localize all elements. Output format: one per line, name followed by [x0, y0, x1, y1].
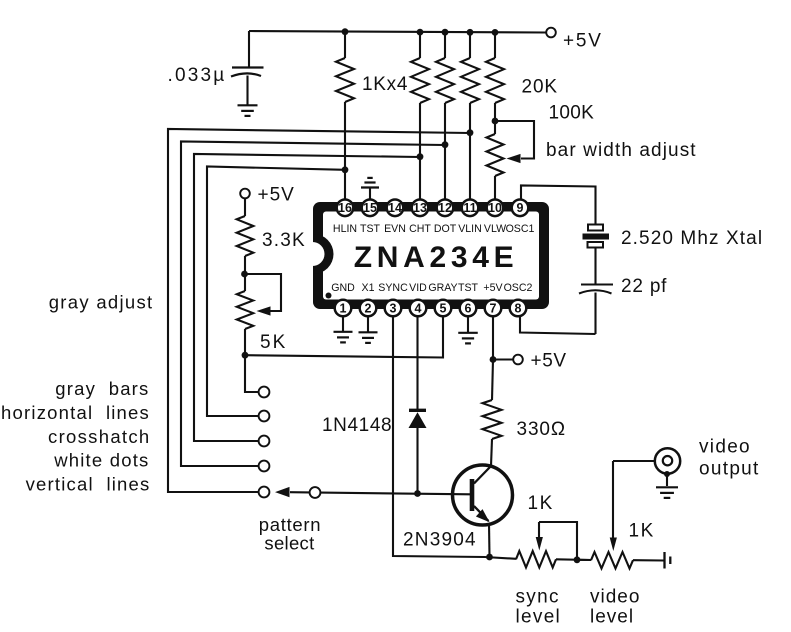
potentiometer R10 sync level 1K [516, 551, 556, 567]
label 1K sync [528, 493, 554, 514]
svg-text:HLIN: HLIN [333, 223, 357, 235]
svg-text:2: 2 [365, 301, 372, 315]
connector J1 video output [655, 448, 680, 473]
wire net HLIN (pin16 to horizontal-lines switch) [207, 167, 345, 417]
resistor R2 1K [411, 32, 429, 199]
junction L1-pin11 [467, 129, 474, 136]
label video level [590, 587, 640, 628]
label 5K [260, 332, 287, 353]
capacitor C1 .033u [231, 68, 264, 106]
IC pin 14 [387, 200, 404, 217]
svg-text:CHT: CHT [409, 223, 431, 235]
svg-text:10: 10 [488, 201, 502, 215]
svg-text:TST: TST [360, 223, 381, 235]
IC pin 1 [335, 300, 352, 317]
IC top pin labels [333, 223, 535, 235]
ground below C1 [238, 105, 258, 116]
switch pole pattern select [310, 487, 321, 498]
svg-text:+5V: +5V [563, 31, 603, 52]
svg-text:3.3K: 3.3K [262, 230, 306, 251]
svg-text:DOT: DOT [434, 223, 457, 235]
wire 5K wiper loop [245, 274, 282, 311]
label pattern select [259, 514, 322, 554]
svg-text:5: 5 [440, 301, 447, 315]
wire pin1 stub [342, 316, 344, 331]
wire pin9 to crystal [521, 186, 596, 225]
resistor R7 3.3K [237, 216, 254, 291]
label video output [699, 437, 760, 480]
junction R7-R8 [241, 271, 248, 278]
switch contact crosshatch [259, 436, 270, 447]
junction 5K bottom [242, 352, 249, 359]
svg-text:select: select [264, 533, 314, 554]
svg-text:X1: X1 [362, 282, 375, 294]
junction rail-R4 [467, 29, 474, 36]
IC pin 3 [385, 300, 402, 317]
ground below pin6 [458, 333, 478, 344]
IC pin 2 [360, 300, 377, 317]
IC pin-1 indicator dot [326, 293, 332, 299]
svg-text:VLW: VLW [484, 223, 506, 235]
wire pin2 stub [367, 316, 369, 332]
label 2N3904 [403, 530, 477, 551]
svg-text:output: output [699, 459, 760, 480]
svg-text:horizontal lines: horizontal lines [1, 402, 150, 423]
IC pin 13 [412, 200, 429, 217]
resistor R4 1K [461, 32, 479, 199]
label white dots [53, 450, 149, 471]
IC pin 5 [435, 300, 452, 317]
switch contact vertical lines [259, 487, 270, 498]
svg-text:1K: 1K [528, 493, 554, 514]
wire pin4 to diode [416, 316, 418, 409]
svg-text:bar width adjust: bar width adjust [546, 140, 697, 161]
resistor R1 1K [336, 32, 354, 200]
svg-text:video: video [590, 587, 640, 608]
svg-text:TST: TST [458, 282, 479, 294]
svg-text:16: 16 [338, 201, 352, 215]
wire pole to Q1 base [320, 493, 470, 495]
IC pin 4 [410, 300, 427, 317]
svg-text:gray bars: gray bars [55, 378, 149, 399]
label 330ohm [517, 419, 567, 440]
label +5V transistor [531, 351, 567, 372]
transistor Q1 2N3904 [453, 465, 513, 557]
wire pin3 to emitter rail [393, 316, 485, 557]
IC pin 12 [437, 200, 454, 217]
svg-text:3: 3 [390, 301, 397, 315]
wire 5K to pin5 GRAY [245, 317, 443, 358]
label gray adjust [49, 292, 154, 313]
label crosshatch [48, 426, 150, 447]
wire emitter rail to sync pot [485, 557, 516, 559]
svg-text:ZNA234E: ZNA234E [354, 241, 519, 274]
IC pin 16 [337, 200, 354, 217]
wire top +5V rail [249, 31, 546, 33]
IC pin 15 [362, 200, 379, 217]
svg-text:OSC1: OSC1 [506, 223, 535, 235]
svg-text:sync: sync [516, 587, 560, 608]
ground below pin2 [359, 332, 378, 343]
wire net VLIN (pin11 to vertical-lines switch) [168, 129, 470, 492]
wiper arrow video [610, 538, 617, 552]
label .033u [168, 65, 227, 86]
svg-text:EVN: EVN [384, 223, 406, 235]
wire video pot to gnd [633, 559, 664, 561]
resistor R5 20K [486, 32, 504, 121]
svg-text:video: video [699, 437, 751, 458]
resistor R9 330 [483, 360, 502, 467]
label +5V gray adjust [258, 185, 295, 206]
svg-text:20K: 20K [522, 77, 559, 98]
wire sync to video pot [556, 558, 591, 561]
svg-text:100K: 100K [549, 102, 595, 123]
label 3.3K [262, 230, 306, 251]
svg-text:4: 4 [415, 301, 422, 315]
svg-text:6: 6 [465, 301, 472, 315]
IC pin 9 [512, 200, 529, 217]
junction diode-base [414, 490, 421, 497]
ground above pin15 [361, 178, 379, 188]
junction L3-pin13 [417, 153, 424, 160]
wiper arrow sync [536, 537, 543, 551]
wire pin7 down [492, 316, 494, 359]
wire video wiper [613, 461, 655, 538]
wire net CHT (pin13 to crosshatch switch) [194, 154, 420, 441]
svg-text:GND: GND [331, 282, 355, 294]
svg-text:2N3904: 2N3904 [403, 530, 477, 551]
svg-text:vertical lines: vertical lines [26, 474, 151, 495]
junction L2-pin12 [442, 141, 449, 148]
svg-text:+5V: +5V [531, 351, 567, 372]
svg-text:+5V: +5V [258, 185, 295, 206]
IC bottom pin labels [331, 282, 532, 294]
switch contact gray bars [259, 387, 270, 398]
junction pin7 +5V [490, 356, 497, 363]
wire +5V to R7 [244, 198, 246, 216]
svg-text:11: 11 [463, 201, 476, 215]
ground below connector [656, 487, 678, 498]
label horizontal lines [1, 402, 150, 423]
wire 5K to gray-bars switch [245, 355, 259, 392]
label gray bars [55, 378, 149, 399]
wire to +5V terminal [493, 358, 513, 360]
label 20K [522, 77, 559, 98]
svg-text:SYNC: SYNC [378, 282, 408, 294]
wire pin6 stub [467, 316, 469, 332]
junction rail-R1 [342, 28, 349, 35]
switch contact horizontal lines [259, 411, 270, 422]
svg-text:+5V: +5V [483, 282, 503, 294]
crystal Y1 2.520MHz [583, 225, 610, 285]
IC pin 7 [485, 300, 502, 317]
resistor R3 1K [436, 32, 454, 199]
capacitor C2 22pf [579, 285, 613, 335]
wire sync wiper loop [539, 522, 577, 560]
ground right-angle video [665, 552, 671, 569]
potentiometer R8 5K [237, 291, 253, 355]
IC U1 ZNA234E body [313, 202, 550, 309]
svg-text:2.520 Mhz Xtal: 2.520 Mhz Xtal [621, 228, 763, 249]
svg-text:gray adjust: gray adjust [49, 292, 154, 313]
wire net DOT (pin12 to white-dots switch) [181, 142, 445, 467]
label 1K video [629, 521, 655, 542]
label 2.520 Mhz Xtal [621, 228, 763, 249]
label bar width adjust [546, 140, 697, 161]
label ZNA234E [354, 241, 519, 274]
switch wiper arrow [275, 487, 310, 497]
label +5V top right [563, 31, 603, 52]
junction connector shell [664, 471, 670, 477]
potentiometer R6 100K [487, 121, 504, 200]
IC pin 6 [460, 300, 477, 317]
junction sync-video [574, 556, 581, 563]
svg-text:1: 1 [340, 301, 347, 315]
terminal +5V transistor [513, 355, 523, 365]
wiper arrow 100K [507, 154, 521, 163]
svg-text:.033µ: .033µ [168, 65, 227, 86]
svg-text:12: 12 [438, 201, 452, 215]
svg-text:1K: 1K [629, 521, 655, 542]
svg-text:VLIN: VLIN [458, 223, 482, 235]
IC pin 11 [462, 200, 479, 217]
svg-text:14: 14 [388, 201, 402, 215]
wire cap C1 riser [248, 31, 250, 67]
svg-text:OSC2: OSC2 [504, 282, 533, 294]
wire 100K rheostat loop [495, 121, 534, 159]
junction L4-pin16 [342, 166, 349, 173]
svg-text:level: level [516, 607, 562, 628]
ground below pin1 [334, 332, 353, 343]
junction emitter rail [486, 554, 493, 561]
IC pin 10 [487, 200, 504, 217]
svg-text:level: level [590, 607, 634, 628]
svg-text:15: 15 [363, 201, 377, 215]
potentiometer R11 video level 1K [591, 552, 633, 568]
label vertical lines [26, 474, 151, 495]
svg-text:VID: VID [409, 282, 427, 294]
label 22 pf [621, 276, 667, 297]
svg-text:5K: 5K [260, 332, 287, 353]
svg-text:1N4148: 1N4148 [322, 415, 392, 436]
svg-text:9: 9 [517, 201, 524, 215]
svg-text:8: 8 [515, 301, 522, 315]
wire connector to ground [666, 474, 668, 486]
junction rail-R3 [442, 29, 449, 36]
junction rail-R2 [417, 29, 424, 36]
switch contact white dots [259, 461, 270, 472]
label 100K [549, 102, 595, 123]
svg-text:1Kx4: 1Kx4 [362, 74, 408, 95]
label 1Kx4 [362, 74, 408, 95]
svg-text:white dots: white dots [53, 450, 149, 471]
svg-text:crosshatch: crosshatch [48, 426, 150, 447]
label sync level [516, 587, 562, 628]
wire pin15 stub [369, 188, 371, 200]
wiper arrow 5K [257, 306, 271, 315]
label 1N4148 [322, 415, 392, 436]
svg-text:330Ω: 330Ω [517, 419, 567, 440]
diode D1 1N4148 [409, 410, 427, 493]
wire crystal to pin8 [520, 317, 596, 335]
junction rail-R5 [492, 29, 499, 36]
terminal +5V gray adjust [240, 189, 250, 199]
IC pin 8 [510, 300, 527, 317]
terminal +5V top right [546, 28, 556, 38]
svg-text:22 pf: 22 pf [621, 276, 667, 297]
svg-text:7: 7 [490, 301, 497, 315]
svg-text:13: 13 [413, 201, 427, 215]
junction 20K-100K [492, 118, 499, 125]
svg-text:GRAY: GRAY [428, 282, 457, 294]
